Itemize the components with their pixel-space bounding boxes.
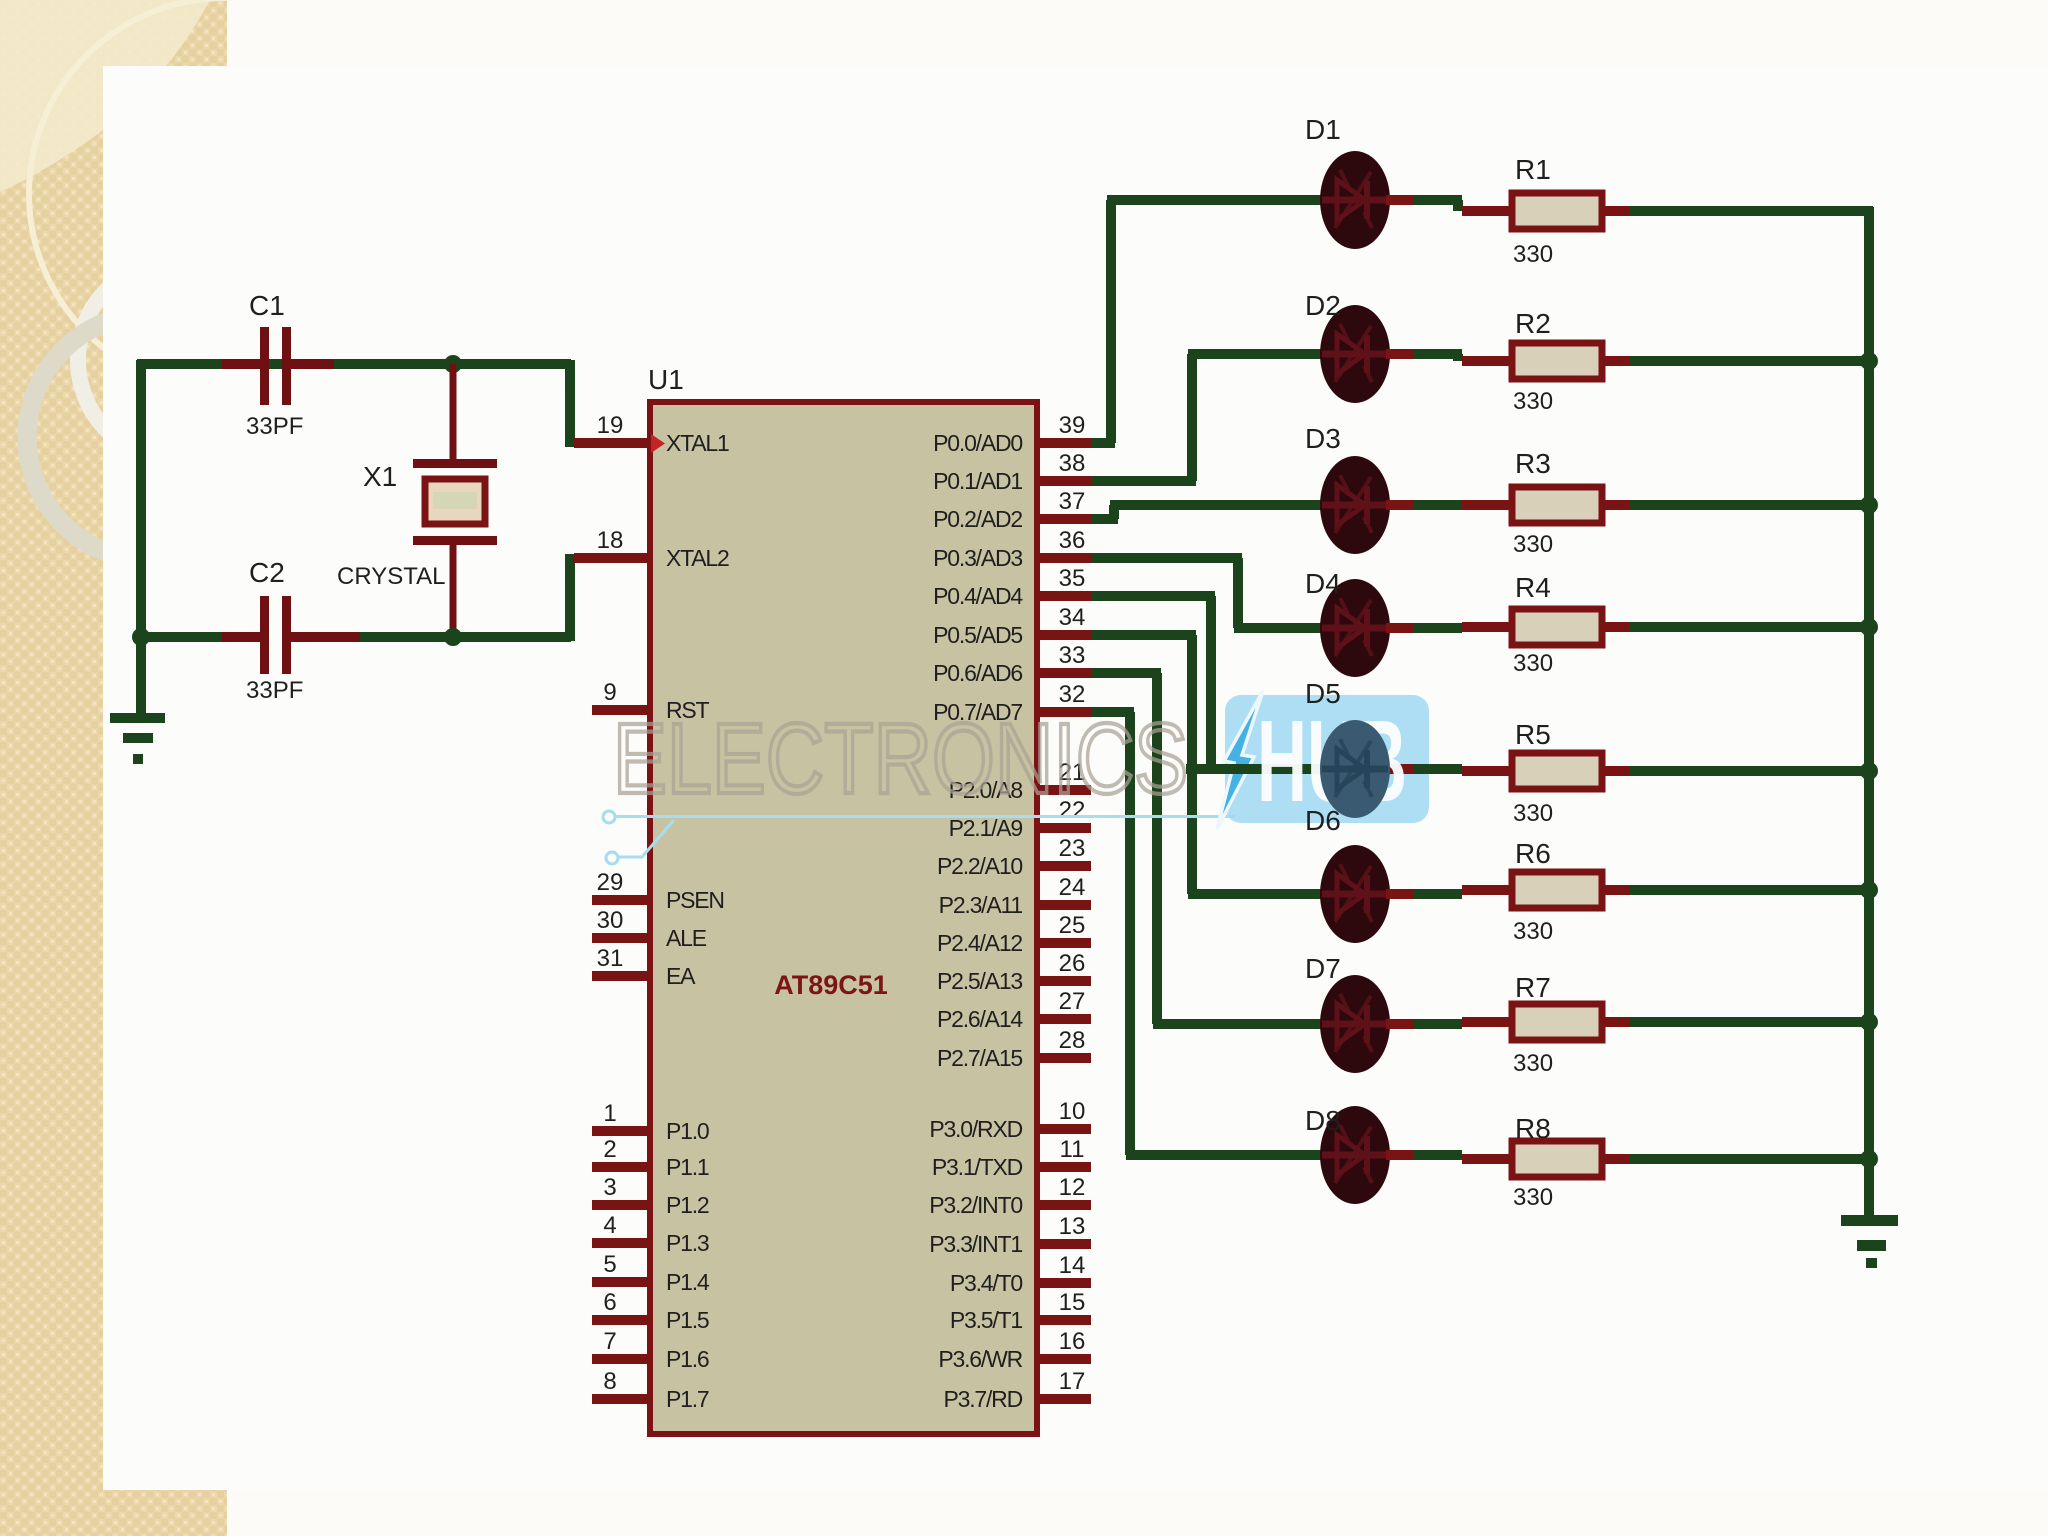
svg-text:26: 26	[1059, 950, 1086, 977]
wire X1 top lead	[450, 364, 457, 459]
node junction left vertical / C2 net	[132, 628, 150, 646]
pin 21 P2.0/A8 (right stub)	[1037, 785, 1091, 795]
wire R5 to bus	[1602, 766, 1630, 776]
pin 8 P1.7 (left stub)	[592, 1394, 650, 1404]
wire R3 to bus	[1602, 500, 1630, 510]
node bus junction row 7	[1860, 1013, 1878, 1031]
svg-text:35: 35	[1059, 565, 1086, 592]
svg-text:330: 330	[1513, 800, 1553, 827]
pin 13 P3.3/INT1 (right stub)	[1037, 1239, 1091, 1249]
svg-text:P0.0/AD0: P0.0/AD0	[933, 430, 1022, 456]
svg-text:X1: X1	[363, 461, 397, 492]
pin 19 XTAL1 (left stub)	[574, 438, 650, 448]
svg-text:P3.3/INT1: P3.3/INT1	[929, 1231, 1022, 1257]
op IC U1 AT89C51 body	[650, 402, 1037, 1434]
wire D6 to R6	[1386, 889, 1414, 899]
wire D3 to R3	[1386, 500, 1414, 510]
svg-text:33PF: 33PF	[246, 413, 303, 440]
pin 30 ALE (left stub)	[592, 933, 650, 943]
wire net D5 row over watermark	[1186, 764, 1322, 774]
watermark trace diagonal	[618, 820, 674, 857]
watermark trace circle 2	[606, 852, 618, 864]
node bus junction row 8	[1860, 1150, 1878, 1168]
svg-text:P1.2: P1.2	[666, 1192, 709, 1218]
svg-text:29: 29	[597, 869, 624, 896]
node bus junction row 3	[1860, 496, 1878, 514]
svg-text:P2.7/A15: P2.7/A15	[937, 1045, 1022, 1071]
svg-text:U1: U1	[648, 364, 684, 395]
svg-text:38: 38	[1059, 450, 1086, 477]
svg-text:19: 19	[597, 412, 624, 439]
pin 31 EA (left stub)	[592, 971, 650, 981]
pin 10 P3.0/RXD (right stub)	[1037, 1124, 1091, 1134]
svg-text:R6: R6	[1515, 838, 1551, 869]
svg-text:23: 23	[1059, 835, 1086, 862]
wire net P0.7 to D8	[1091, 707, 1134, 717]
ground (right)	[1841, 1215, 1898, 1226]
pin 15 P3.5/T1 (right stub)	[1037, 1315, 1091, 1325]
LED D3	[1320, 456, 1390, 554]
node junction X1 bottom / C2 net	[444, 628, 462, 646]
pin 3 P1.2 (left stub)	[592, 1200, 650, 1210]
svg-text:39: 39	[1059, 412, 1086, 439]
pin 34 P0.5/AD5 (right stub)	[1037, 630, 1091, 640]
svg-text:330: 330	[1513, 388, 1553, 415]
svg-text:17: 17	[1059, 1368, 1086, 1395]
watermark lightning bolt	[1217, 691, 1263, 829]
svg-text:330: 330	[1513, 918, 1553, 945]
wire R7 to bus	[1602, 1017, 1630, 1027]
svg-text:P2.5/A13: P2.5/A13	[937, 968, 1022, 994]
wire left vertical to ground	[136, 360, 146, 713]
wire D8 to R8	[1386, 1150, 1414, 1160]
svg-text:P2.6/A14: P2.6/A14	[937, 1006, 1023, 1032]
pin 23 P2.2/A10 (right stub)	[1037, 861, 1091, 871]
resistor R4	[1512, 609, 1602, 645]
svg-text:25: 25	[1059, 912, 1086, 939]
svg-text:P0.3/AD3: P0.3/AD3	[933, 545, 1022, 571]
LED D5	[1320, 720, 1390, 818]
svg-text:PSEN: PSEN	[666, 887, 724, 913]
wire net P0.6 to D7	[1091, 668, 1161, 678]
svg-text:P1.7: P1.7	[666, 1386, 709, 1412]
svg-text:P1.1: P1.1	[666, 1154, 709, 1180]
svg-text:33: 33	[1059, 642, 1086, 669]
pin 33 P0.6/AD6 (right stub)	[1037, 668, 1091, 678]
svg-text:R3: R3	[1515, 448, 1551, 479]
decorative light disc top-left	[0, 0, 210, 192]
svg-text:33PF: 33PF	[246, 677, 303, 704]
pin 39 P0.0/AD0 (right stub)	[1037, 438, 1091, 448]
pin 24 P2.3/A11 (right stub)	[1037, 900, 1091, 910]
svg-text:3: 3	[603, 1174, 616, 1201]
svg-text:2: 2	[603, 1136, 616, 1163]
svg-text:9: 9	[603, 679, 616, 706]
ground (left)	[110, 713, 165, 723]
decorative cream ring	[29, 0, 421, 390]
svg-text:30: 30	[597, 907, 624, 934]
svg-text:D4: D4	[1305, 568, 1341, 599]
wire R6 to bus	[1602, 885, 1630, 895]
svg-text:R4: R4	[1515, 572, 1551, 603]
node bus junction row 5	[1860, 762, 1878, 780]
svg-text:P1.4: P1.4	[666, 1269, 710, 1295]
resistor R3	[1512, 487, 1602, 523]
LED D8	[1320, 1106, 1390, 1204]
svg-text:16: 16	[1059, 1328, 1086, 1355]
LED D1	[1320, 151, 1390, 249]
svg-text:P3.2/INT0: P3.2/INT0	[929, 1192, 1022, 1218]
svg-text:R8: R8	[1515, 1113, 1551, 1144]
svg-text:D7: D7	[1305, 953, 1341, 984]
pin 6 P1.5 (left stub)	[592, 1315, 650, 1325]
svg-text:P2.4/A12: P2.4/A12	[937, 930, 1022, 956]
pin 29 PSEN (left stub)	[592, 895, 650, 905]
svg-text:AT89C51: AT89C51	[774, 970, 888, 1000]
svg-text:34: 34	[1059, 604, 1086, 631]
svg-text:D2: D2	[1305, 290, 1341, 321]
resistor R8	[1512, 1141, 1602, 1177]
svg-text:P3.1/TXD: P3.1/TXD	[932, 1154, 1023, 1180]
svg-text:D1: D1	[1305, 114, 1341, 145]
wire bottom horizontal C2 net	[137, 632, 222, 642]
pin 37 P0.2/AD2 (right stub)	[1037, 514, 1091, 524]
wire net P0.3 to D4	[1091, 553, 1242, 563]
wire R8 to bus	[1602, 1154, 1630, 1164]
svg-text:ELECTRONICS: ELECTRONICS	[613, 703, 1188, 815]
XTAL1 clock input arrow	[651, 434, 665, 453]
wire D1 to R1	[1386, 195, 1414, 205]
decorative white ring	[78, 260, 278, 460]
pin 16 P3.6/WR (right stub)	[1037, 1354, 1091, 1364]
pin 1 P1.0 (left stub)	[592, 1126, 650, 1136]
svg-text:11: 11	[1060, 1136, 1085, 1163]
svg-text:7: 7	[603, 1328, 616, 1355]
svg-text:R7: R7	[1515, 972, 1551, 1003]
pin 26 P2.5/A13 (right stub)	[1037, 976, 1091, 986]
svg-text:P1.6: P1.6	[666, 1346, 709, 1372]
svg-text:330: 330	[1513, 531, 1553, 558]
pin 7 P1.6 (left stub)	[592, 1354, 650, 1364]
svg-text:XTAL1: XTAL1	[666, 430, 729, 456]
wire net P0.5 to D6	[1091, 630, 1196, 640]
svg-text:31: 31	[597, 945, 624, 972]
wire R2 to bus	[1602, 356, 1630, 366]
pin 18 XTAL2 (left stub)	[574, 553, 650, 563]
resistor R2	[1512, 343, 1602, 379]
svg-text:P3.4/T0: P3.4/T0	[950, 1270, 1023, 1296]
pin 28 P2.7/A15 (right stub)	[1037, 1053, 1091, 1063]
svg-text:36: 36	[1059, 527, 1086, 554]
wire R4 to bus	[1602, 622, 1630, 632]
svg-text:P3.6/WR: P3.6/WR	[938, 1346, 1022, 1372]
svg-text:28: 28	[1059, 1027, 1086, 1054]
resistor R1	[1512, 193, 1602, 229]
node bus junction row 2	[1860, 352, 1878, 370]
node bus junction row 4	[1860, 618, 1878, 636]
svg-text:1: 1	[603, 1100, 616, 1127]
pin 12 P3.2/INT0 (right stub)	[1037, 1200, 1091, 1210]
svg-text:P0.6/AD6: P0.6/AD6	[933, 660, 1022, 686]
svg-text:P3.7/RD: P3.7/RD	[943, 1386, 1022, 1412]
wire net P0.1 to D2	[1091, 476, 1196, 486]
svg-text:D6: D6	[1305, 805, 1341, 836]
capacitor C1	[222, 359, 266, 369]
svg-text:P0.4/AD4: P0.4/AD4	[933, 583, 1023, 609]
svg-text:5: 5	[603, 1251, 616, 1278]
svg-text:P2.1/A9: P2.1/A9	[949, 815, 1023, 841]
wire XTAL1 net vertical	[565, 360, 575, 447]
svg-text:P1.3: P1.3	[666, 1230, 709, 1256]
svg-text:330: 330	[1513, 1184, 1553, 1211]
watermark HUB box	[1225, 695, 1429, 823]
resistor R7	[1512, 1004, 1602, 1040]
svg-text:330: 330	[1513, 241, 1553, 268]
watermark trace line	[615, 815, 1235, 818]
svg-text:C2: C2	[249, 557, 285, 588]
svg-text:CRYSTAL: CRYSTAL	[337, 563, 445, 590]
pin 11 P3.1/TXD (right stub)	[1037, 1162, 1091, 1172]
svg-text:10: 10	[1059, 1098, 1086, 1125]
svg-text:C1: C1	[249, 290, 285, 321]
svg-text:P0.1/AD1: P0.1/AD1	[933, 468, 1022, 494]
pin 5 P1.4 (left stub)	[592, 1277, 650, 1287]
pin 9 RST (left stub)	[592, 705, 650, 715]
svg-text:27: 27	[1059, 988, 1086, 1015]
svg-text:14: 14	[1059, 1252, 1086, 1279]
wire net P0.4 to D5	[1091, 591, 1215, 601]
svg-text:D3: D3	[1305, 423, 1341, 454]
svg-text:330: 330	[1513, 1050, 1553, 1077]
wire right bus vertical	[1864, 207, 1874, 1217]
LED D7	[1320, 975, 1390, 1073]
decorative gray ring	[27, 314, 273, 560]
wire D7 to R7	[1386, 1019, 1414, 1029]
wire XTAL2 net vertical	[565, 554, 575, 641]
svg-text:P3.0/RXD: P3.0/RXD	[929, 1116, 1022, 1142]
resistor R5	[1512, 753, 1602, 789]
pin 35 P0.4/AD4 (right stub)	[1037, 591, 1091, 601]
svg-text:D5: D5	[1305, 678, 1341, 709]
pin 36 P0.3/AD3 (right stub)	[1037, 553, 1091, 563]
left beige checkered strip	[0, 0, 227, 1536]
node A junction C1/X1 top	[444, 355, 462, 373]
node bus junction row 6	[1860, 881, 1878, 899]
pin 2 P1.1 (left stub)	[592, 1162, 650, 1172]
svg-text:6: 6	[603, 1289, 616, 1316]
wire R1 to bus	[1602, 206, 1630, 216]
svg-text:8: 8	[603, 1368, 616, 1395]
LED D2	[1320, 305, 1390, 403]
pin 38 P0.1/AD1 (right stub)	[1037, 476, 1091, 486]
svg-text:R2: R2	[1515, 308, 1551, 339]
svg-text:12: 12	[1059, 1174, 1086, 1201]
pin 22 P2.1/A9 (right stub)	[1037, 823, 1091, 833]
wire net P0.2 to D3	[1091, 514, 1118, 524]
wire D5 to R5	[1386, 764, 1414, 774]
svg-text:R1: R1	[1515, 154, 1551, 185]
pin 27 P2.6/A14 (right stub)	[1037, 1014, 1091, 1024]
svg-text:24: 24	[1059, 874, 1086, 901]
capacitor C2	[222, 632, 266, 642]
pin 17 P3.7/RD (right stub)	[1037, 1394, 1091, 1404]
svg-text:15: 15	[1059, 1289, 1086, 1316]
svg-text:EA: EA	[666, 963, 696, 989]
crystal X1	[413, 459, 497, 468]
wire X1 bottom lead	[450, 545, 457, 641]
watermark trace circle 1	[603, 811, 615, 823]
svg-text:P3.5/T1: P3.5/T1	[950, 1307, 1023, 1333]
pin 14 P3.4/T0 (right stub)	[1037, 1278, 1091, 1288]
svg-text:P2.3/A11: P2.3/A11	[939, 892, 1023, 918]
svg-text:R5: R5	[1515, 719, 1551, 750]
wire D4 to R4	[1386, 623, 1414, 633]
wire top horizontal C1 net	[137, 359, 571, 369]
svg-text:13: 13	[1059, 1213, 1086, 1240]
wire D2 to R2	[1386, 349, 1414, 359]
resistor R6	[1512, 872, 1602, 908]
pin 25 P2.4/A12 (right stub)	[1037, 938, 1091, 948]
svg-text:XTAL2: XTAL2	[666, 545, 729, 571]
svg-text:330: 330	[1513, 650, 1553, 677]
svg-text:P1.0: P1.0	[666, 1118, 709, 1144]
svg-text:4: 4	[603, 1212, 616, 1239]
LED D6	[1320, 845, 1390, 943]
svg-text:18: 18	[597, 527, 624, 554]
LED D4	[1320, 579, 1390, 677]
svg-text:P0.2/AD2: P0.2/AD2	[933, 506, 1022, 532]
svg-text:P2.2/A10: P2.2/A10	[937, 853, 1022, 879]
wire net P0.0 to D1	[1091, 438, 1115, 448]
pin 32 P0.7/AD7 (right stub)	[1037, 707, 1091, 717]
svg-text:37: 37	[1059, 488, 1086, 515]
pin 4 P1.3 (left stub)	[592, 1238, 650, 1248]
svg-text:D8: D8	[1305, 1105, 1341, 1136]
svg-text:P1.5: P1.5	[666, 1307, 709, 1333]
svg-text:ALE: ALE	[666, 925, 707, 951]
svg-text:P0.5/AD5: P0.5/AD5	[933, 622, 1022, 648]
